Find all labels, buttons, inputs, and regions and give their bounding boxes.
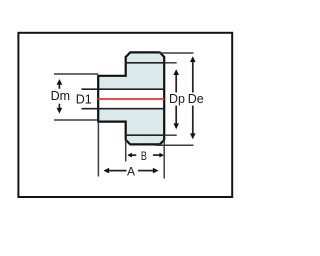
- svg-text:A: A: [127, 164, 135, 178]
- svg-text:Dm: Dm: [51, 89, 70, 103]
- svg-text:B: B: [141, 149, 147, 163]
- svg-text:Dp: Dp: [169, 92, 185, 106]
- svg-text:D1: D1: [76, 92, 92, 106]
- svg-text:De: De: [188, 92, 204, 106]
